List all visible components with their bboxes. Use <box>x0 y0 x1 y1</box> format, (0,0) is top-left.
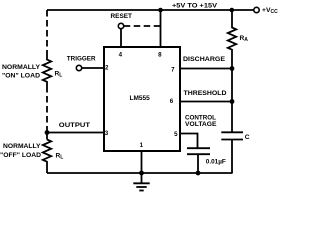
svg-text:"ON" LOAD: "ON" LOAD <box>2 73 40 80</box>
resistor RA <box>228 10 236 69</box>
svg-text:NORMALLY: NORMALLY <box>3 143 41 150</box>
svg-text:0.01µF: 0.01µF <box>206 158 226 165</box>
resistor RL lower <box>43 140 51 174</box>
node pin1/rail junction <box>139 171 144 176</box>
svg-text:TRIGGER: TRIGGER <box>67 55 96 62</box>
svg-text:"OFF" LOAD: "OFF" LOAD <box>0 152 41 159</box>
wire cap C to bottom rail <box>231 140 233 174</box>
svg-text:NORMALLY: NORMALLY <box>2 64 41 71</box>
svg-text:4: 4 <box>119 52 123 59</box>
wire pin8 to rail <box>160 10 162 47</box>
wire reset to pin4 <box>120 29 122 47</box>
svg-text:RL: RL <box>55 71 63 79</box>
svg-text:6: 6 <box>170 98 174 105</box>
svg-text:RA: RA <box>240 35 249 43</box>
wire output stub down <box>46 133 48 140</box>
svg-text:RL: RL <box>56 152 64 160</box>
svg-text:8: 8 <box>158 52 162 59</box>
wire threshold to cap C <box>231 102 233 133</box>
wire pin6 threshold <box>180 101 232 103</box>
svg-text:+5V TO +15V: +5V TO +15V <box>172 3 218 10</box>
wire cap 0.01uF to bottom rail <box>197 154 199 173</box>
node cap/rail junction <box>196 171 201 176</box>
wire RA junction to threshold <box>231 69 233 102</box>
svg-text:7: 7 <box>171 67 175 74</box>
node junction RA/rail <box>230 8 235 13</box>
node output junction <box>45 130 50 135</box>
node discharge junction <box>230 66 235 71</box>
node Vcc terminal <box>254 7 259 12</box>
wire pin3 output <box>47 132 104 134</box>
wire pin5 control voltage <box>180 134 198 149</box>
resistor RL upper <box>43 56 51 86</box>
node trigger terminal <box>76 65 81 70</box>
svg-text:+VCC: +VCC <box>262 7 278 15</box>
wire pin1 to ground rail <box>141 151 143 173</box>
node reset terminal <box>118 23 123 28</box>
node threshold junction <box>230 99 235 104</box>
capacitor C <box>221 131 243 133</box>
svg-text:1: 1 <box>140 142 144 149</box>
node junction pin8/rail <box>158 8 163 13</box>
svg-text:3: 3 <box>105 130 109 137</box>
svg-text:2: 2 <box>105 65 109 72</box>
svg-text:5: 5 <box>174 131 178 138</box>
wire dashed upper-left <box>46 10 48 56</box>
svg-text:DISCHARGE: DISCHARGE <box>183 56 226 63</box>
ground <box>133 173 149 191</box>
wire bottom rail <box>47 172 233 174</box>
wire top supply rail <box>47 9 254 11</box>
svg-text:VOLTAGE: VOLTAGE <box>185 121 217 128</box>
svg-text:RESET: RESET <box>111 13 133 20</box>
wire dashed reset to pin8 line <box>124 25 161 27</box>
op-amp U1 LM555 box <box>104 47 180 151</box>
wire pin7 discharge <box>180 68 232 70</box>
capacitor 0.01uF <box>187 147 210 149</box>
wire trigger to pin2 <box>82 67 104 69</box>
svg-text:C: C <box>245 134 250 141</box>
wire dashed mid-left <box>46 86 48 131</box>
svg-text:LM555: LM555 <box>130 95 151 102</box>
svg-text:THRESHOLD: THRESHOLD <box>184 90 227 97</box>
svg-text:OUTPUT: OUTPUT <box>59 122 90 129</box>
